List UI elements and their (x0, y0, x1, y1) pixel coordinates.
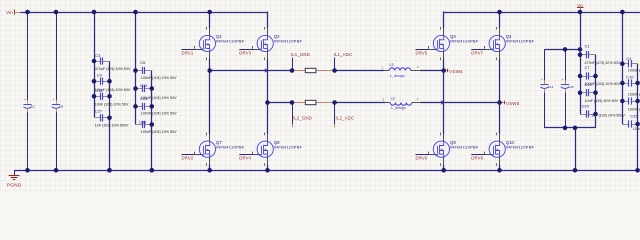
wire Vo electrolytic top branch y=49.4 (545, 49, 581, 51)
power port Vin (6, 10, 20, 15)
net label VSW4 (444, 69, 463, 75)
label C3 and value (95, 53, 131, 71)
svg-text:100nF (104) 10% 50V: 100nF (104) 10% 50V (141, 112, 177, 116)
svg-text:C30: C30 (139, 119, 147, 124)
wire row2 Q2 source to shunt (268, 102, 294, 104)
svg-text:10nF (103) 10% 50V: 10nF (103) 10% 50V (585, 99, 619, 103)
svg-text:Vin: Vin (6, 10, 13, 15)
wire Q4 source to row2 node (499, 59, 501, 103)
svg-text:+: + (562, 77, 564, 81)
capacitor C27 (94, 114, 110, 121)
svg-text:C15: C15 (95, 88, 102, 93)
label C9 and value (95, 73, 131, 94)
svg-text:C16: C16 (568, 85, 574, 89)
capacitor C2 (electrolytic) (23, 97, 35, 112)
net label IL1_ADC (334, 52, 353, 71)
wire row2 node down to Q10 drain (499, 103, 501, 135)
wire rail x=94 (from top bus) (94, 12, 96, 118)
svg-text:470nF (474) 10% 50V: 470nF (474) 10% 50V (585, 61, 621, 65)
net label VSW5 (500, 101, 520, 107)
svg-text:C13: C13 (585, 82, 592, 87)
svg-text:DRV6: DRV6 (416, 156, 428, 161)
svg-text:+: + (541, 77, 543, 81)
wire Q10 source to bottom bus (499, 164, 501, 170)
svg-text:100nF (104) 10% 50V: 100nF (104) 10% 50V (141, 130, 177, 134)
label C27 and value (95, 108, 129, 127)
inductor L2 (382, 63, 421, 78)
capacitor C12 (136, 85, 152, 92)
label C10 and value (626, 74, 640, 96)
svg-text:C14: C14 (548, 85, 554, 89)
wire bottom bus (PGND rail) (14, 170, 638, 172)
svg-text:DRV3: DRV3 (239, 51, 251, 56)
junction dots rail 135.5/151.8 (133, 10, 154, 173)
junction dots row1 (207, 68, 446, 73)
wire crossing chevron at x=443.7 row2 (441, 101, 443, 105)
svg-text:C2: C2 (31, 105, 35, 109)
capacitor C3 (94, 57, 110, 64)
power port Vo (577, 3, 583, 12)
net label IL1_GND (291, 52, 310, 71)
svg-text:C10: C10 (626, 74, 634, 79)
svg-text:C25: C25 (582, 104, 589, 109)
svg-text:DRV4: DRV4 (239, 156, 251, 161)
capacitor C16 (electrolytic) (561, 77, 574, 92)
label C22 and value (630, 114, 640, 131)
wire rail x=637.6 (to bottom bus) (637, 64, 639, 171)
capacitor C8 (electrolytic) (52, 97, 64, 112)
svg-text:1nF (102) 10% 500V: 1nF (102) 10% 500V (95, 124, 129, 128)
capacitor C22 (622, 120, 637, 127)
svg-text:IRFB4110PBF: IRFB4110PBF (274, 39, 303, 44)
net label DRV7 (gate of Q4) (471, 50, 484, 56)
inductor L3 (383, 97, 421, 111)
wire rail x=56 (Vin to PGND through C8) (56, 12, 58, 170)
wire Q2 source down to phase node 2 (crosses row 1) (267, 59, 269, 103)
transistor Q4 (485, 27, 535, 60)
capacitor C6 (136, 67, 152, 74)
junction dots top bus (25, 10, 502, 15)
junction dots row2 (265, 100, 502, 105)
net label IL2_ADC (335, 103, 355, 128)
capacitor C10 (622, 79, 637, 86)
svg-text:+: + (24, 97, 26, 101)
wire Q3 source to row1 node (443, 59, 445, 71)
capacitor C14 (electrolytic) (540, 77, 553, 92)
label C25 and value (582, 104, 626, 118)
svg-text:C4: C4 (626, 56, 632, 61)
svg-text:IRFB4110PBF: IRFB4110PBF (450, 39, 479, 44)
svg-text:100nF (10: 100nF (10 (628, 68, 640, 72)
label C1 and value (585, 44, 621, 65)
wire Q3 drain drop from top bus (443, 12, 445, 29)
net label DRV8 (gate of Q10) (471, 155, 484, 161)
svg-text:IRFB4110PBF: IRFB4110PBF (506, 144, 535, 149)
svg-text:C6: C6 (140, 60, 145, 65)
wire rail x=622.4 (from top bus) (622, 12, 624, 124)
junction dots rail 580/595.5 (578, 10, 598, 117)
net label DRV5 (gate of Q3) (416, 50, 429, 56)
wire Q8 source to bottom bus (267, 164, 269, 170)
svg-text:100nF (1: 100nF (1 (628, 107, 640, 111)
capacitor C4 (622, 60, 637, 67)
resistor shunt 2 (293, 100, 334, 104)
label C30 and value (139, 119, 177, 134)
wire rail x=151.8 (to bottom bus) (151, 71, 153, 171)
wire Q2 drain drop from top bus (267, 12, 269, 29)
svg-text:+: + (53, 97, 55, 101)
wire rail x=109.5 (to bottom bus) (109, 61, 111, 170)
svg-text:PGND: PGND (7, 182, 22, 188)
capacitor C9 (94, 78, 110, 85)
wire crossing chevron at x=267.5 row1 (265, 69, 267, 73)
transistor Q10 (485, 133, 535, 166)
net label DRV1 (gate of Q1) (182, 50, 195, 56)
junction dots electrolytic branch (563, 47, 583, 173)
wire Q1 source to phase node 1 (209, 59, 211, 71)
transistor Q2 (253, 27, 303, 60)
svg-text:IRFB4110PBF: IRFB4110PBF (506, 39, 535, 44)
wire Q7 source to bottom bus (209, 164, 211, 170)
wire row1 L2 to Q3 source node (420, 70, 444, 72)
wire row2 shunt to inductor L3 (334, 102, 386, 104)
svg-text:DRV1: DRV1 (182, 51, 194, 56)
svg-text:DRV8: DRV8 (471, 156, 483, 161)
svg-text:C27: C27 (95, 108, 102, 113)
wire rail x=544.5 through C14 (544, 49, 546, 128)
wire Q4 drain drop from top bus (499, 12, 501, 28)
svg-text:IRFB4110PBF: IRFB4110PBF (450, 144, 479, 149)
net label IL2_GND (293, 103, 313, 128)
net label DRV4 (gate of Q8) (239, 155, 252, 161)
wire rail x=580 (from top bus) (580, 12, 582, 114)
svg-text:VSW5: VSW5 (506, 101, 520, 106)
wire Q9 source to bottom bus (443, 164, 445, 170)
wire rail x=565 through C16 (565, 49, 567, 128)
svg-text:IL2_ADC: IL2_ADC (336, 116, 355, 121)
svg-text:C22: C22 (630, 114, 637, 119)
junction dots bottom bus (25, 168, 502, 173)
svg-text:IRFB4110PBF: IRFB4110PBF (216, 144, 245, 149)
svg-text:C12: C12 (140, 83, 147, 88)
svg-text:C24: C24 (140, 96, 148, 101)
svg-text:VSW4: VSW4 (449, 69, 463, 74)
svg-text:L2: L2 (390, 63, 394, 67)
wire rail x=135.5 (from top bus) (135, 12, 137, 125)
svg-text:IL1_GND: IL1_GND (291, 52, 310, 57)
capacitor C30 (136, 121, 152, 128)
wire row1 Q1 source to shunt (210, 70, 293, 72)
capacitor C25 (580, 110, 596, 117)
transistor Q7 (195, 133, 245, 166)
wire rail x=27.5 (Vin to PGND through C2) (27, 12, 29, 170)
transistor Q3 (429, 27, 479, 60)
wire top bus right (Vo rail) (444, 12, 640, 14)
transistor Q1 (195, 27, 245, 60)
capacitor C15 (94, 93, 110, 100)
svg-text:10nF (103) 10% 50V: 10nF (103) 10% 50V (95, 102, 129, 106)
wire stub x=575 to bottom bus (575, 128, 577, 170)
wire row1 shunt to inductor L2 (334, 70, 385, 72)
wire row1 node down to Q9 drain (crosses row2) (443, 71, 445, 135)
wire top bus left (Vin rail) (20, 12, 267, 14)
wire phase node 2 down to Q8 drain (267, 103, 269, 135)
transistor Q9 (429, 133, 479, 166)
junction dots rail 94/109.5 (92, 10, 112, 173)
svg-text:L_design: L_design (390, 74, 405, 78)
svg-text:470uF (474) 10% 50V: 470uF (474) 10% 50V (95, 67, 131, 71)
svg-text:DRV2: DRV2 (182, 156, 194, 161)
net label DRV2 (gate of Q7) (182, 155, 195, 161)
svg-text:C3: C3 (95, 53, 100, 58)
svg-text:L_design: L_design (391, 106, 406, 110)
junction dots rail 622.4/637.6 (620, 10, 640, 173)
transistor Q8 (253, 133, 303, 166)
label C7 and value (585, 65, 621, 87)
resistor shunt 1 (293, 68, 334, 72)
svg-text:IRFB4110PBF: IRFB4110PBF (274, 144, 303, 149)
net label DRV3 (gate of Q2) (239, 50, 252, 56)
capacitor C13 (580, 89, 596, 96)
capacitor C24 (136, 103, 152, 110)
label C12 and value (140, 83, 177, 101)
svg-text:100nF (104) 10% 50V: 100nF (104) 10% 50V (141, 76, 177, 80)
label C4 and value (626, 56, 640, 72)
svg-text:L3: L3 (391, 97, 395, 101)
wire row2 L3 to Q4 source node (crosses x=443.7) (420, 102, 499, 104)
wire collector line y=127.9 (545, 127, 596, 129)
svg-text:IL2_GND: IL2_GND (293, 116, 312, 121)
wire phase node 1 down to Q7 drain (209, 71, 211, 135)
svg-text:100nF: 100nF (633, 127, 640, 131)
svg-text:IL1_ADC: IL1_ADC (334, 52, 353, 57)
svg-text:C7: C7 (585, 65, 590, 70)
svg-text:DRV5: DRV5 (416, 51, 428, 56)
svg-text:100nF (10: 100nF (10 (628, 93, 640, 97)
svg-text:C8: C8 (59, 105, 63, 109)
wire rail x=595.5 (to collector line) (595, 55, 597, 128)
capacitor C19 (622, 97, 637, 104)
svg-text:C1: C1 (585, 44, 590, 49)
capacitor C7 (580, 72, 596, 79)
svg-text:IRFB4110PBF: IRFB4110PBF (216, 39, 245, 44)
capacitor C1 (580, 51, 596, 58)
svg-text:C9: C9 (97, 73, 102, 78)
wire Q1 drain drop from top bus (209, 12, 211, 28)
ground PGND (7, 170, 22, 188)
net label DRV6 (gate of Q9) (416, 155, 429, 161)
label C6 and value (140, 60, 177, 80)
svg-text:DRV7: DRV7 (471, 51, 483, 56)
